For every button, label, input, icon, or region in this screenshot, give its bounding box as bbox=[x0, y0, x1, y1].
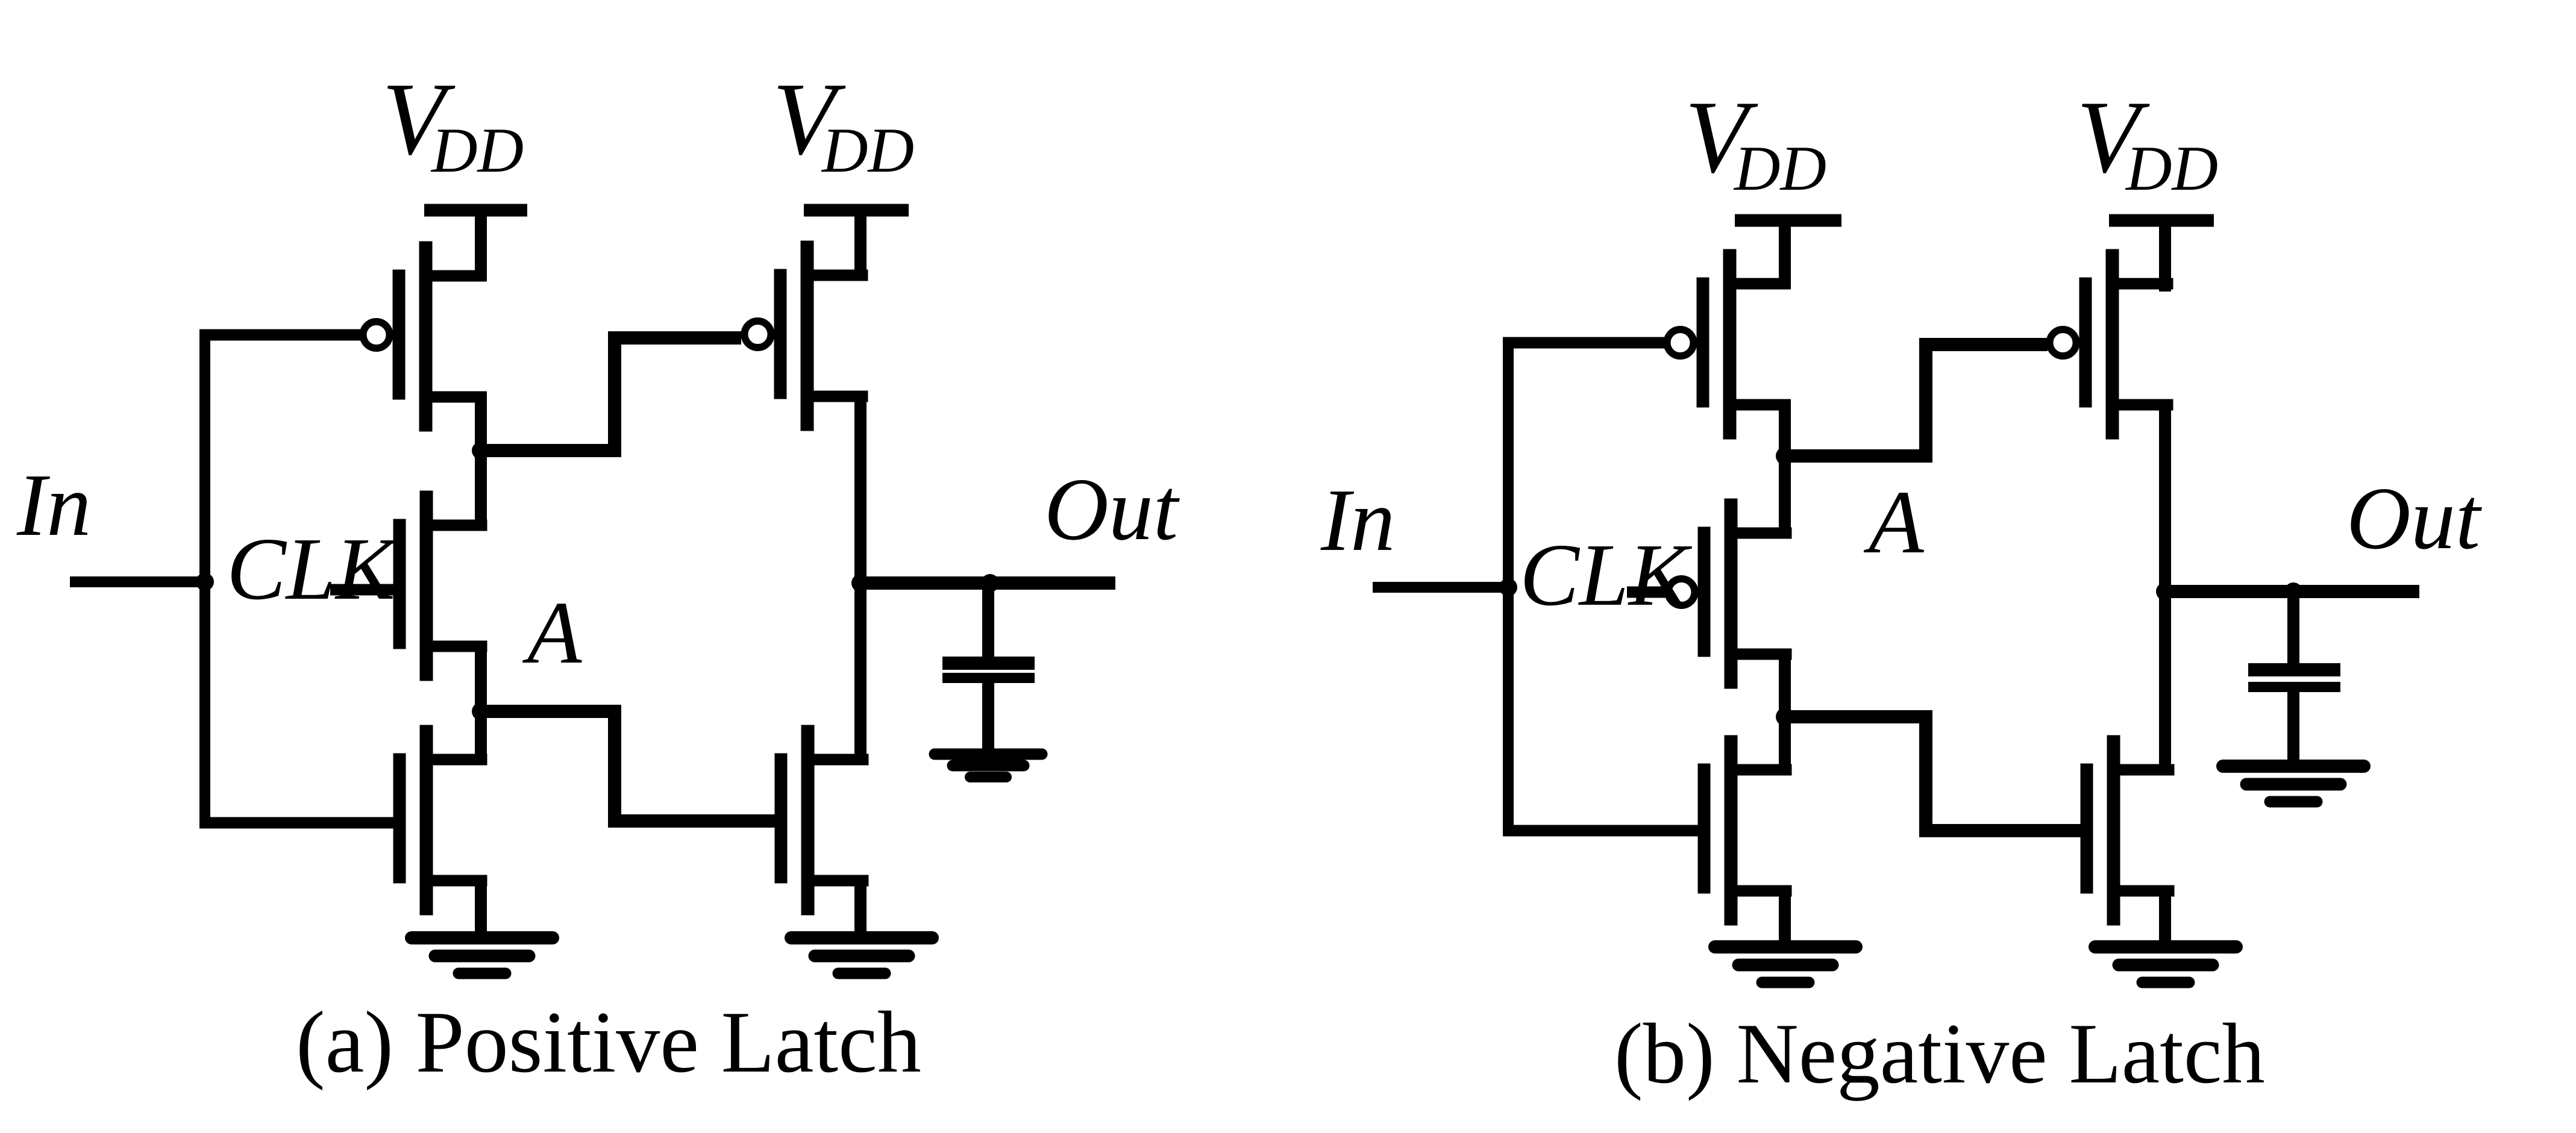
wire: VDD rail to M4 source (a) bbox=[854, 205, 867, 281]
wire: input branch vertical (b) bbox=[1503, 343, 1514, 831]
capacitor C2 top plate (b) bbox=[2248, 663, 2340, 676]
wire: capacitor C1 to ground (a) bbox=[982, 681, 994, 753]
ground: capacitor C1 (a) bbox=[935, 754, 1042, 777]
wire: input branch vertical (a) bbox=[199, 335, 210, 823]
wire: M1 drain to node X (a) bbox=[475, 392, 487, 529]
wire: M2 source to node A (a) bbox=[475, 641, 487, 763]
node: input junction dot (b) bbox=[1499, 578, 1517, 596]
wire: VDD rail to M1 source (a) bbox=[475, 205, 487, 281]
svg-text:A: A bbox=[1863, 472, 1925, 572]
wire: gate feed to PMOS M1 (a) bbox=[199, 329, 360, 341]
wire: Out node to capacitor C2 (b) bbox=[2287, 587, 2299, 666]
power rail VDD second stage (b) bbox=[2109, 214, 2214, 227]
wire: M7 source to node A (b) bbox=[1779, 649, 1791, 771]
wire: gate feed to PMOS M6 (b) bbox=[1503, 337, 1664, 349]
label VDD first stage (a) bbox=[382, 62, 524, 186]
wire: M8 source to ground (b) bbox=[1779, 885, 1791, 943]
transistor M2 NMOS clock device (a) bbox=[393, 491, 487, 681]
wire: M4 drain to Out node to M5 drain (a) bbox=[854, 391, 867, 762]
wire: M6 drain to node X (b) bbox=[1779, 399, 1791, 537]
wire: In input lead (b) bbox=[1373, 582, 1514, 593]
wire: capacitor C2 to ground (b) bbox=[2287, 690, 2299, 764]
svg-text:CLK: CLK bbox=[227, 520, 400, 619]
transistor M5 NMOS output device (a) bbox=[775, 725, 868, 915]
svg-text:DD: DD bbox=[2125, 133, 2218, 204]
node: input junction dot (a) bbox=[196, 573, 214, 591]
wire: gate feed to NMOS M8 (b) bbox=[1503, 825, 1702, 837]
svg-text:DD: DD bbox=[430, 115, 524, 186]
label VDD first stage (b) bbox=[1685, 80, 1826, 204]
wire: M3 source to ground (a) bbox=[475, 875, 487, 935]
node: X junction dot (a) bbox=[472, 442, 490, 460]
ground: second stage (b) bbox=[2095, 947, 2236, 982]
wire: CLK to M2 gate (a) bbox=[330, 584, 396, 596]
wire: node A to M10 gate (b) bbox=[1785, 717, 2084, 831]
svg-text:DD: DD bbox=[821, 115, 914, 186]
power rail VDD first stage (a) bbox=[424, 204, 527, 217]
power rail VDD first stage (b) bbox=[1735, 214, 1841, 227]
transistor M8 NMOS input device (b) bbox=[1698, 735, 1791, 925]
wire: Out lead (b) bbox=[2160, 585, 2419, 598]
transistor M3 NMOS input device (a) bbox=[393, 725, 487, 915]
label VDD second stage (a) bbox=[772, 62, 914, 186]
svg-text:Out: Out bbox=[2346, 469, 2483, 568]
transistor M1 PMOS input device (a) bbox=[363, 242, 487, 431]
svg-text:DD: DD bbox=[1733, 133, 1826, 204]
svg-text:In: In bbox=[16, 456, 91, 555]
transistor M7 PMOS clock device (b) bbox=[1669, 499, 1792, 688]
transistor M4 PMOS output device (a) bbox=[745, 241, 868, 431]
node: A junction dot (a) bbox=[472, 702, 490, 720]
ground: capacitor C2 (b) bbox=[2223, 766, 2364, 802]
capacitor C2 bottom plate (b) bbox=[2248, 682, 2340, 692]
transistor M10 NMOS output device (b) bbox=[2081, 735, 2174, 925]
wire: VDD rail to M6 source (b) bbox=[1779, 216, 1791, 289]
wire: In input lead (a) bbox=[70, 576, 210, 587]
svg-text:Out: Out bbox=[1044, 460, 1180, 559]
wire: gate feed to NMOS M3 (a) bbox=[199, 817, 396, 829]
wire: CLK to M7 gate (b) bbox=[1627, 587, 1667, 598]
transistor M9 PMOS output device (b) bbox=[2050, 249, 2173, 439]
wire: M10 source to ground (b) bbox=[2159, 885, 2171, 943]
node: capacitor tap dot (b) bbox=[2284, 582, 2302, 601]
capacitor C1 top plate (a) bbox=[942, 657, 1035, 670]
wire: node X to M9 gate (b) bbox=[1785, 345, 2048, 456]
label VDD second stage (b) bbox=[2076, 80, 2218, 204]
node: Out junction dot (b) bbox=[2156, 582, 2174, 601]
wire: VDD rail to M9 source (b) bbox=[2159, 216, 2171, 292]
node: Out junction dot (a) bbox=[851, 574, 870, 592]
svg-text:A: A bbox=[522, 584, 582, 682]
ground: second stage (a) bbox=[791, 938, 932, 973]
wire: node A to M5 gate (a) bbox=[481, 711, 777, 821]
node: A junction dot (b) bbox=[1776, 708, 1794, 726]
transistor M6 PMOS input device (b) bbox=[1667, 249, 1791, 439]
wire: Out lead (a) bbox=[855, 576, 1115, 590]
wire: M9 drain to Out node to M10 drain (b) bbox=[2159, 399, 2171, 771]
wire: Out node to capacitor C1 (a) bbox=[982, 578, 994, 660]
ground: first stage (a) bbox=[412, 938, 553, 973]
svg-text:(a) Positive Latch: (a) Positive Latch bbox=[296, 993, 921, 1091]
node: capacitor tap dot (a) bbox=[981, 574, 999, 592]
wire: M5 source to ground (a) bbox=[854, 875, 867, 935]
ground: first stage (b) bbox=[1715, 947, 1856, 982]
svg-text:In: In bbox=[1320, 471, 1395, 570]
svg-text:(b) Negative Latch: (b) Negative Latch bbox=[1614, 1006, 2265, 1101]
power rail VDD second stage (a) bbox=[804, 204, 909, 217]
capacitor C1 bottom plate (a) bbox=[942, 673, 1035, 683]
svg-text:CLK: CLK bbox=[1520, 526, 1693, 625]
wire: node X to M4 gate (a) bbox=[481, 338, 741, 451]
node: X junction dot (b) bbox=[1776, 447, 1794, 465]
